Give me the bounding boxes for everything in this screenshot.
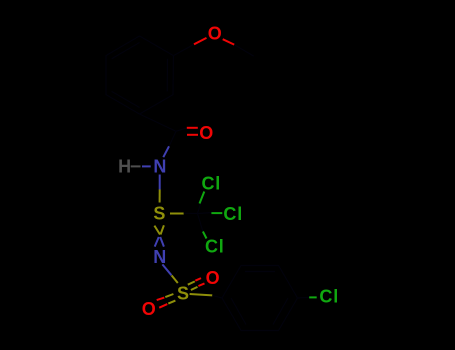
right chlorophenyl ring (carbon skeleton, near-invisible) (212, 266, 309, 331)
bond C-Cl ring (Cl half) (309, 296, 317, 298)
svg-text:Cl: Cl (319, 287, 339, 307)
bond N - SO2 (S half) (172, 275, 178, 283)
S=O lower-left double bond line 1 (165, 294, 173, 297)
svg-text:N: N (153, 156, 167, 176)
bond N - S (S half) (159, 190, 161, 203)
bond N - SO2 (N half) (162, 264, 171, 275)
bond N - C(=O) (N half) (163, 146, 169, 157)
bond S - CCl3 (S half) (170, 213, 184, 215)
svg-text:Cl: Cl (201, 173, 221, 193)
svg-text:O: O (208, 24, 223, 44)
bond S - phenyl ipso (S half) (190, 294, 213, 295)
bond H-N : H half (131, 165, 141, 167)
S=N double bond drawn as pinched double lines: S-half (yellow V) (154, 226, 160, 235)
bond O - CH3 (O half) (223, 39, 235, 44)
bond O - ring (O half) (194, 38, 207, 44)
S=O upper-right double bond line 2 (191, 287, 198, 290)
bond C-Cl top (Cl half) (200, 192, 205, 204)
svg-text:N: N (153, 247, 167, 267)
svg-text:S: S (177, 284, 190, 304)
bond C-Cl bottom (Cl half) (203, 232, 207, 239)
bond N - S (N half) (159, 175, 161, 190)
bond C-Cl right (Cl half) (211, 212, 222, 214)
left benzene ring (carbon skeleton, near-invisible) (106, 36, 173, 114)
CCl3 carbon half-bonds (near-invisible) (184, 192, 212, 232)
carbonyl C=O double bond (O half, two red lines) (187, 128, 198, 135)
svg-text:O: O (199, 123, 214, 143)
S=N pinched double lines: N-half (blue inverted V) (155, 237, 159, 247)
svg-text:O: O (142, 299, 157, 319)
S=O upper-right double bond line 1 (188, 281, 195, 284)
S=O lower-left double bond line 2 (168, 301, 175, 304)
bond H-N : N half (142, 165, 151, 167)
svg-text:S: S (153, 204, 166, 224)
svg-text:O: O (206, 268, 221, 288)
carbon half-bonds around left ring (near-invisible) (140, 44, 254, 147)
svg-text:Cl: Cl (205, 236, 225, 256)
svg-text:H: H (118, 157, 132, 177)
svg-text:Cl: Cl (223, 204, 243, 224)
